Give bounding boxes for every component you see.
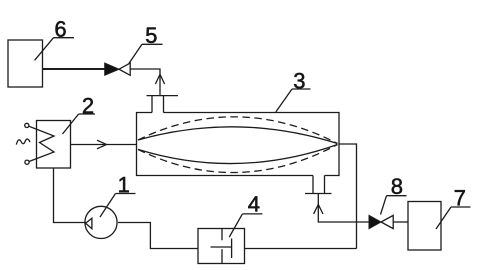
- label 2 leader: [63, 114, 96, 134]
- wire tank6 to valve5: [43, 68, 105, 70]
- wire valve8 to tank7: [393, 221, 408, 223]
- membrane lower dashed: [138, 145, 338, 173]
- tank 6: [8, 40, 43, 87]
- vessel outlet wire and downcomer: [339, 144, 357, 249]
- vessel 3 shell: [137, 113, 340, 176]
- terminal bottom: [25, 160, 29, 164]
- label 8 leader: [381, 196, 407, 215]
- label 7 digit: [455, 190, 465, 205]
- AC squiggle: [16, 139, 30, 145]
- wire valve5 to vessel top nozzle: [130, 69, 160, 96]
- wire condenser to downcomer: [245, 248, 357, 250]
- label 2 digit: [83, 98, 93, 113]
- label 3 leader: [276, 89, 311, 112]
- flow arrow: [97, 140, 107, 149]
- wire heater to vessel: [71, 144, 137, 146]
- valve V8: [369, 215, 393, 228]
- heater 2 box: [37, 121, 71, 169]
- membrane upper dashed: [138, 117, 338, 144]
- label 4 leader: [229, 214, 262, 237]
- pump triangle: [86, 218, 92, 229]
- top nozzle walls: [151, 96, 153, 113]
- label 7 leader: [436, 207, 471, 229]
- tank 7: [408, 202, 441, 251]
- label 4 digit: [248, 196, 259, 211]
- heater element zigzag: [29, 126, 54, 161]
- bottom nozzle walls: [312, 176, 314, 194]
- label 1 leader: [100, 194, 136, 218]
- label 5 digit: [146, 28, 156, 43]
- label 6 digit: [56, 21, 66, 37]
- wire heater down to pump: [54, 168, 86, 223]
- wire nozzle down: [318, 194, 369, 223]
- terminal top: [25, 123, 29, 127]
- pump 1: [85, 206, 117, 238]
- label 5 leader: [129, 44, 163, 63]
- top nozzle flange: [147, 95, 179, 97]
- condenser 4 box: [198, 229, 245, 264]
- valve V5: [105, 63, 131, 75]
- membrane upper solid: [138, 127, 338, 144]
- arrow up into top line: [155, 74, 164, 84]
- label 1 digit: [119, 177, 128, 192]
- label 8 digit: [392, 178, 402, 194]
- label 6 leader: [35, 38, 74, 61]
- bottom nozzle flange: [305, 193, 332, 195]
- membrane lower solid: [138, 145, 338, 164]
- arrow up into vessel: [314, 205, 323, 215]
- condenser internal plates: [211, 229, 232, 264]
- wire pump to condenser 4: [118, 223, 198, 249]
- label 3 digit: [294, 73, 304, 89]
